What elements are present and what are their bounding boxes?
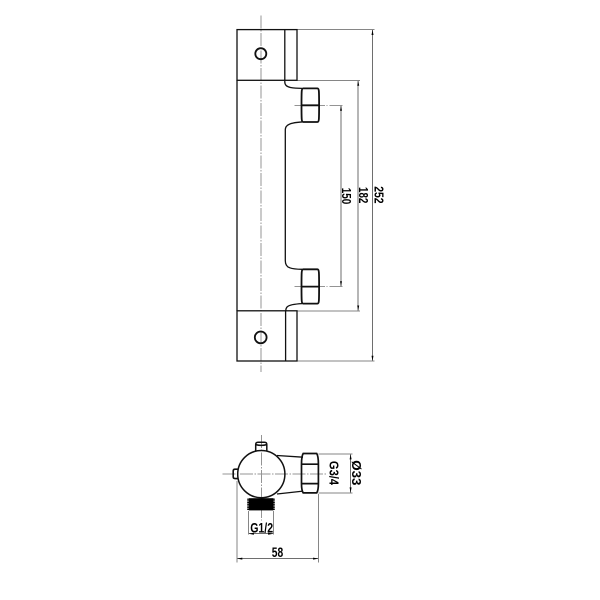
svg-text:182: 182 [356,187,371,203]
svg-text:G3/4: G3/4 [326,461,341,486]
svg-text:150: 150 [339,188,354,205]
svg-text:58: 58 [272,544,284,560]
svg-text:Ø33: Ø33 [349,460,364,485]
svg-text:G1/2: G1/2 [250,520,273,536]
svg-text:252: 252 [371,186,386,203]
